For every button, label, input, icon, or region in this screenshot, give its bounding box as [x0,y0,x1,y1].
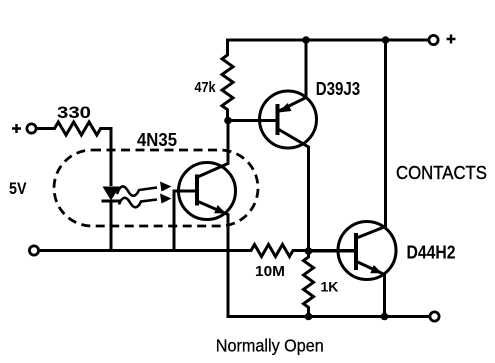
svg-text:4N35: 4N35 [137,129,177,150]
svg-text:330: 330 [57,103,91,122]
svg-text:Normally Open: Normally Open [216,336,324,356]
svg-text:CONTACTS: CONTACTS [396,162,487,183]
svg-text:1K: 1K [321,279,339,295]
svg-text:5V: 5V [9,180,27,198]
svg-text:10M: 10M [255,264,285,280]
svg-text:D44H2: D44H2 [407,242,456,262]
svg-text:47k: 47k [195,80,217,96]
svg-text:D39J3: D39J3 [316,78,361,99]
